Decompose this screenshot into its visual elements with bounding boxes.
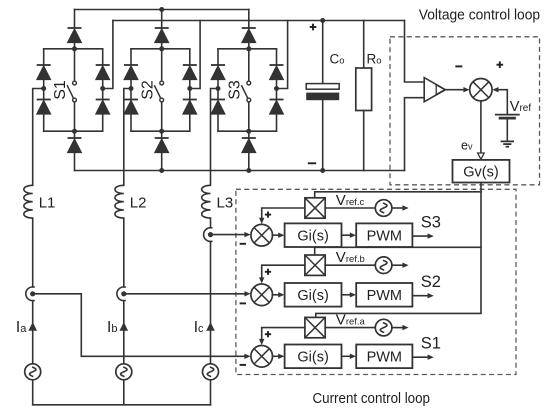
wire capacitor branch top [322,21,324,84]
label Vref.a [336,312,366,329]
label S2 [421,273,441,291]
wire leg3 phase connection to midpoint [211,89,219,186]
label S1 [421,335,441,353]
wire positive DC bus rail [113,20,405,22]
current sensor tap phase 3 [204,228,214,242]
node leg2 right midpoint [187,86,192,91]
diode leg2 right lower [183,100,197,115]
summing junction row S1 [251,346,273,368]
wire Vref.c arrow [392,205,409,210]
wire summer to Gi(s) row S1 [272,354,284,359]
arrow current Ia [28,322,37,331]
inductor L3 [202,185,211,218]
label S2 [139,80,156,100]
wire positive bus to sense amp [405,21,425,83]
wire leg1 phase connection to midpoint [33,89,44,186]
wire leg1 right midpoint to positive bus [103,21,113,89]
wire AC source b to neutral [123,380,125,405]
switch S1 [67,81,76,102]
node junction bottom rail / leg2 [159,168,164,173]
diode leg3 left upper [211,65,225,80]
voltage control loop dashed box [390,37,540,185]
wire PWM output S2 [412,293,433,298]
wire PWM output S1 [412,355,433,360]
label S3 [226,80,243,100]
diode leg3 bottom [242,138,256,153]
sense amplifier triangle [424,78,445,102]
diode leg1 left upper [37,65,51,80]
diode leg2 bottom [155,138,169,153]
svg-text:Gi(s): Gi(s) [297,350,328,366]
wire phase 3 inductor to current sensor [210,218,212,228]
summing junction row S2 [251,284,273,306]
node leg2 left midpoint [129,86,134,91]
wire phase 1 sensor to AC source [32,301,34,364]
label - summer row S3 [240,243,246,245]
node leg1 bridge bottom [72,129,77,134]
label Ic [194,319,204,336]
wire multiplier to summer + input row S1 [259,328,305,346]
wire negative bus to sense amp [405,98,425,171]
wire leg1 right branch [102,49,104,131]
wire leg3 left branch [217,49,219,131]
label - negative bus [308,162,316,164]
diode leg2 top [155,28,169,43]
wire negative DC bus rail (bottom) [75,170,405,172]
wire ev voltage summer to Gv(s) [478,101,485,159]
label Ia [16,319,27,336]
node leg3 right midpoint [274,86,279,91]
current control loop dashed box [236,189,516,374]
wire neutral bottom [33,404,211,406]
svg-text:S1: S1 [52,80,69,100]
wire phase 3 sensor to AC source [210,242,212,364]
wire leg3 right branch [276,49,278,131]
label Vref.c [336,192,365,209]
wire AC source c to neutral [210,380,212,405]
svg-text:L1: L1 [39,195,56,212]
diode leg2 right upper [183,65,197,80]
label Vref.b [336,249,365,266]
wire Gi(s) to PWM row S2 [342,292,357,297]
diode leg3 top [242,28,256,43]
wire Gv output tap row1 [315,192,481,198]
label S1 [52,80,69,100]
svg-text:L3: L3 [217,195,234,212]
wire Gi(s) to PWM row S1 [342,354,357,359]
wire PWM output S3 [412,233,433,238]
AC source phase c [203,364,219,380]
wire leg1 left branch [43,49,45,131]
current sensor tap phase 2 [117,287,127,301]
wire top rail (cathodes of top diodes) [75,9,249,11]
arrow current Ib [120,322,129,331]
svg-text:PWM: PWM [367,288,402,304]
wire leg3 center column [248,10,250,171]
wire AC source a to neutral [32,380,34,405]
current sensor tap phase 1 [26,287,36,301]
wire leg2 right branch [189,49,191,131]
diode leg1 bottom [68,138,82,153]
sine source Vref.a [375,319,392,336]
block PWM row S2 [356,283,412,307]
label S3 [421,213,441,231]
label L1 [39,195,56,212]
wire leg3 bridge top [218,48,277,50]
sine source Vref.b [375,257,392,274]
AC source phase a [25,364,41,380]
diode leg3 right lower [270,100,284,115]
wire leg2 right midpoint to positive bus [190,21,200,89]
diode leg2 left lower [124,100,138,115]
wire multiplier to Vref.c source [325,207,375,209]
wire current sensor c to summer row S3 [213,232,251,237]
wire leg3 bridge bottom [218,130,277,132]
label Ro [367,52,382,67]
wire multiplier to summer + input row S3 [259,208,305,224]
label Current control loop [313,390,431,407]
node junction positive bus / capacitor branch [320,18,325,23]
wire summer to Gi(s) row S2 [272,292,284,297]
svg-text:ev: ev [461,139,473,153]
node leg1 left midpoint [41,86,46,91]
wire leg2 bridge top [131,48,190,50]
label - summer row S2 [240,302,246,304]
battery Vref [495,115,520,119]
AC source phase b [116,364,132,380]
wire sense amp to voltage summer [445,87,469,92]
svg-text:Voltage control loop: Voltage control loop [419,7,540,24]
resistor Ro [356,68,372,111]
wire resistor branch top [363,21,365,69]
wire leg1 bridge top [44,48,103,50]
wire leg2 bridge bottom [131,130,190,132]
label L2 [130,195,147,212]
label - voltage summer [455,65,462,67]
label ev [461,139,473,153]
wire leg1 bridge bottom [44,130,103,132]
svg-text:S1: S1 [421,335,441,353]
svg-text:Gi(s): Gi(s) [297,288,328,304]
wire leg1 center column [74,10,76,171]
block PWM row S3 [356,223,412,247]
block Gi(s) row S1 [285,345,342,369]
inductor L1 [24,185,33,218]
label Co [330,52,345,67]
node leg1 bridge top [72,46,77,51]
svg-text:Gi(s): Gi(s) [297,228,328,244]
wire leg3 right midpoint to positive bus [277,21,288,89]
svg-text:S3: S3 [226,80,243,100]
svg-text:Gv(s): Gv(s) [463,164,498,180]
wire Gv output tap row2 [315,247,481,255]
block PWM row S1 [356,345,412,369]
wire multiplier to Vref.a source [325,327,375,329]
summing junction row S3 [251,224,273,246]
wire leg2 left branch [130,49,132,131]
wire leg2 phase connection to midpoint [124,89,131,186]
wire Vref to voltage summer [492,87,507,114]
svg-text:Current control loop: Current control loop [313,390,431,407]
diode leg1 top [68,28,82,43]
summing junction voltage loop [470,79,492,101]
wire current sensor a to summer row S1 [35,294,250,359]
node junction top rail / leg2 top diode [159,7,164,12]
arrow current Ic [206,322,215,331]
label + summer row S1 [265,331,271,337]
svg-text:PWM: PWM [367,228,402,244]
diode leg1 left lower [37,100,51,115]
ground [501,141,514,146]
node leg3 bridge bottom [246,129,251,134]
svg-text:S2: S2 [139,80,156,100]
diode leg1 right upper [96,65,110,80]
node leg1 right midpoint [100,86,105,91]
wire phase 1 inductor to current sensor [32,218,34,287]
wire current sensor b to summer row S2 [126,291,250,296]
wire multiplier to Vref.b source [325,264,375,266]
node leg3 left midpoint [216,86,221,91]
diode leg2 left upper [124,65,138,80]
label Ib [107,319,117,336]
wire Vref.a arrow [392,325,409,330]
label Voltage control loop [419,7,540,24]
node junction bottom rail / capacitor branch [320,168,325,173]
wire summer to Gi(s) row S3 [272,233,284,238]
switch S2 [154,81,163,102]
svg-text:S2: S2 [421,273,441,291]
block Gi(s) row S2 [285,283,342,307]
wire phase 2 sensor to AC source [123,301,125,364]
label Vref [510,99,532,115]
switch S3 [241,81,250,102]
wire multiplier to summer + input row S2 [259,265,305,283]
capacitor Co [306,84,339,101]
wire battery to ground [506,119,508,141]
diode leg3 right upper [270,65,284,80]
block Gi(s) row S3 [285,223,342,247]
label L3 [217,195,234,212]
wire Gv(s) output down to multipliers [316,183,481,318]
label - summer row S1 [240,364,246,366]
wire capacitor branch bottom [322,100,324,170]
label + summer row S2 [265,269,271,275]
label + voltage summer [497,61,504,68]
label + summer row S3 [265,212,271,218]
svg-text:S3: S3 [421,213,441,231]
wire Vref.b arrow [392,263,409,268]
wire leg2 center column [161,10,163,171]
wire Gi(s) to PWM row S3 [342,233,357,238]
diode leg1 right lower [96,100,110,115]
multiplier row S2 [305,255,325,275]
multiplier row S1 [305,317,325,337]
inductor L2 [115,185,124,218]
node leg3 bridge top [246,46,251,51]
node leg2 bridge bottom [159,129,164,134]
block Gv(s) [453,160,510,183]
multiplier row S3 [305,198,325,218]
svg-text:L2: L2 [130,195,147,212]
node leg2 bridge top [159,46,164,51]
node junction bottom rail / leg3 [246,168,251,173]
sine source Vref.c [375,200,392,217]
label + positive bus [310,24,317,31]
svg-text:PWM: PWM [367,350,402,366]
wire resistor branch bottom [363,111,365,171]
diode leg3 left lower [211,100,225,115]
wire phase 2 inductor to current sensor [123,218,125,287]
